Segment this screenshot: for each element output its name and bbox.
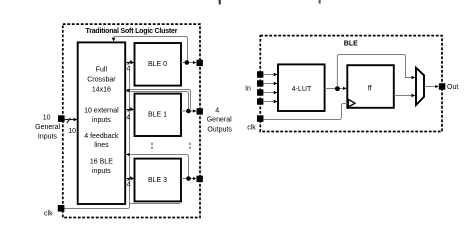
arrowhead: BLE0 feedback into crossbar top <box>112 38 116 42</box>
stray cropped mark 2 at top edge <box>319 0 321 4</box>
wire: feedback from BLE 0 over the top into crossbar <box>114 37 188 61</box>
bus: crossbar to BLE 0 (4 wires) <box>125 62 133 64</box>
svg-text:BLE: BLE <box>344 41 358 48</box>
svg-text:BLE 1: BLE 1 <box>148 112 167 119</box>
svg-text:clk: clk <box>44 211 53 218</box>
input square on cluster border <box>58 115 65 122</box>
wire: feedback from BLE 1 into crossbar right (pair) <box>127 90 191 109</box>
arrowhead: BLE1 feedback <box>126 89 130 92</box>
BLE 0 box <box>135 43 182 86</box>
BLE dashed boundary <box>260 36 442 132</box>
mux output wire, arrow, Out pin square <box>425 86 438 88</box>
ff output wire to mux <box>394 95 414 97</box>
svg-text:Crossbar: Crossbar <box>87 77 116 84</box>
crossbar box <box>78 42 126 204</box>
svg-text:4: 4 <box>127 181 131 188</box>
BLE 3 box <box>135 159 182 202</box>
svg-text:4-LUT: 4-LUT <box>292 86 312 93</box>
clk wire to ff clock pin <box>263 104 347 120</box>
bus: crossbar to BLE 3 <box>125 178 133 180</box>
svg-text:10: 10 <box>43 115 51 122</box>
4-LUT box <box>278 64 325 111</box>
mux (2:1 select) <box>416 68 424 105</box>
LUT output wire with junction dot <box>325 88 346 90</box>
svg-text:BLE 0: BLE 0 <box>148 61 167 68</box>
ellipsis on output column <box>189 143 190 145</box>
ellipsis between BLE 1 and BLE 3 <box>151 143 152 145</box>
svg-text:Full: Full <box>96 67 108 74</box>
BLE 3 output: wire, junction dot, arrow, border square <box>181 178 196 180</box>
svg-text:In: In <box>245 86 251 93</box>
svg-text:Traditional Soft Logic Cluster: Traditional Soft Logic Cluster <box>86 28 178 35</box>
BLE 1 box <box>135 94 182 136</box>
svg-text:16 BLE: 16 BLE <box>90 159 113 166</box>
BLE 0 output: wire, junction dot, arrow, border square <box>181 62 196 64</box>
svg-text:14x16: 14x16 <box>92 87 111 94</box>
BLE 1 output: wire, junction dot, arrow, border square <box>181 110 196 112</box>
svg-text:inputs: inputs <box>92 117 111 124</box>
wire: clk branch under BLE 3 <box>130 203 181 205</box>
bus: crossbar to BLE 1 <box>125 109 133 111</box>
bypass wire over ff to mux <box>337 55 414 88</box>
clk square on cluster border <box>58 205 65 212</box>
ff box <box>347 65 394 108</box>
svg-text:10 external: 10 external <box>84 107 119 114</box>
svg-text:4 feedback: 4 feedback <box>84 133 119 140</box>
svg-text:10: 10 <box>68 128 76 135</box>
svg-text:inputs: inputs <box>92 168 111 175</box>
svg-text:ff: ff <box>368 85 372 92</box>
svg-text:4: 4 <box>126 115 130 122</box>
svg-text:Out: Out <box>447 84 458 91</box>
cluster dashed boundary <box>63 24 200 217</box>
input bus wire with width slash <box>65 119 76 121</box>
svg-text:4: 4 <box>215 107 219 114</box>
svg-text:Outputs: Outputs <box>207 127 232 134</box>
stray cropped mark at top edge <box>219 0 221 5</box>
svg-text:Inputs: Inputs <box>38 134 58 141</box>
svg-text:General: General <box>207 117 232 124</box>
wire: feedback from BLE 3 into crossbar right <box>127 155 189 177</box>
In pin squares on border <box>257 71 263 77</box>
svg-text:clk: clk <box>247 125 256 132</box>
svg-text:4: 4 <box>127 66 131 73</box>
clk pin square on BLE border <box>257 115 264 122</box>
svg-text:BLE 3: BLE 3 <box>148 177 167 184</box>
arrowhead: BLE3 feedback <box>126 153 130 156</box>
ff clock pin triangle <box>348 99 355 107</box>
svg-text:lines: lines <box>94 142 109 149</box>
In wires into 4-LUT <box>263 74 276 76</box>
wire: clk distribution (left cluster) <box>64 70 129 209</box>
svg-text:General: General <box>35 124 60 131</box>
